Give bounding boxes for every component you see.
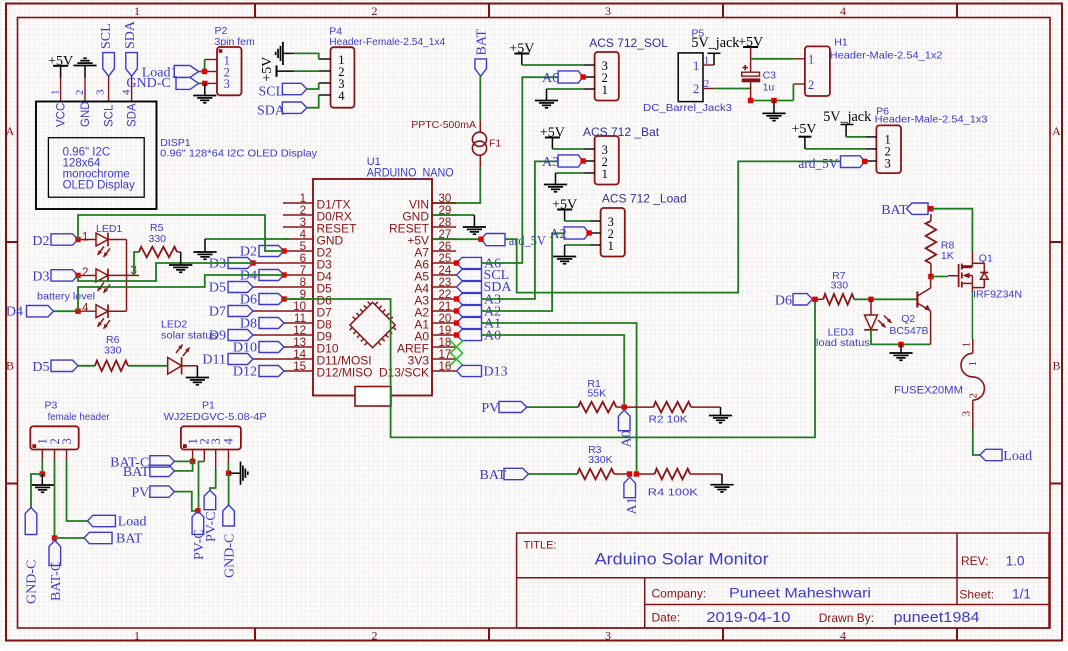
svg-text:Sheet:: Sheet: <box>959 588 994 602</box>
wire net D4 to U1 <box>78 275 284 311</box>
junction A1 b <box>634 471 639 476</box>
svg-text:A: A <box>1052 124 1061 138</box>
net flag PV-C (P1 pin2) <box>192 511 204 535</box>
connector P4 body <box>331 47 355 107</box>
svg-text:3: 3 <box>605 629 611 643</box>
ACS 712_SOL pin 1 <box>584 88 595 90</box>
wire P1.3 down <box>210 470 216 490</box>
svg-text:2: 2 <box>808 78 814 92</box>
svg-text:D2: D2 <box>32 234 49 249</box>
junction A1 a <box>627 471 632 476</box>
ground (U1 pin 29 GND) <box>433 214 475 216</box>
wire gnd to P4.1 <box>294 53 319 59</box>
svg-text:1: 1 <box>602 167 608 181</box>
svg-text:H1: H1 <box>834 37 848 49</box>
svg-text:PV: PV <box>131 485 149 500</box>
svg-text:3: 3 <box>961 411 973 417</box>
svg-text:20: 20 <box>439 313 452 325</box>
svg-text:3: 3 <box>605 4 611 18</box>
DISP1 pin 2 GND <box>84 78 86 101</box>
wire PV to junction <box>174 492 198 511</box>
P2 pin 2 <box>205 71 217 73</box>
ACS 712 _Bat pin 2 <box>584 160 595 162</box>
ACS 712 _Bat pin 3 <box>584 148 595 150</box>
junction ard_5V P6 <box>862 159 867 164</box>
svg-text:5V_jack: 5V_jack <box>691 35 740 51</box>
P6 pin 1 <box>865 136 876 138</box>
junction P2 pin2 <box>202 69 207 74</box>
wire H1.2 to gnd net <box>792 84 794 101</box>
svg-text:21: 21 <box>439 301 452 313</box>
svg-text:Date:: Date: <box>652 611 681 625</box>
svg-text:ACS 712 _Load: ACS 712 _Load <box>602 192 687 206</box>
junction Q2 base <box>868 297 873 302</box>
svg-text:8: 8 <box>300 277 306 289</box>
svg-text:PV-C: PV-C <box>204 511 219 542</box>
svg-text:14: 14 <box>293 349 306 361</box>
svg-text:1: 1 <box>808 53 814 67</box>
svg-text:1: 1 <box>961 342 973 348</box>
U1 pin 10 D7 <box>253 310 313 312</box>
svg-text:SDA: SDA <box>484 280 513 295</box>
svg-text:battery level: battery level <box>37 291 95 303</box>
svg-text:4: 4 <box>222 438 236 445</box>
P5 pin 2 <box>703 88 714 90</box>
U1 pin 17 3V3 <box>432 358 456 360</box>
U1 pin 18 AREF <box>432 346 456 348</box>
svg-text:1: 1 <box>134 629 140 643</box>
svg-text:BAT: BAT <box>123 465 150 480</box>
svg-text:Q2: Q2 <box>901 313 915 325</box>
svg-text:SCL: SCL <box>104 104 116 127</box>
wire P1.2 down to junction <box>199 462 205 511</box>
P1 pin 3 <box>215 450 217 471</box>
svg-text:13: 13 <box>293 337 306 349</box>
wire P3.1 down <box>41 459 43 474</box>
svg-text:330: 330 <box>149 233 167 245</box>
svg-text:17: 17 <box>439 349 452 361</box>
ground (P1 pin4) <box>229 472 241 474</box>
net flag GND-C (P1) <box>223 505 235 526</box>
wire SDA to P4.4 <box>307 95 319 108</box>
svg-text:BAT: BAT <box>116 532 143 547</box>
ground (U1 pin 4 GND) <box>205 238 289 240</box>
wire net A0 <box>482 335 625 404</box>
svg-text:1: 1 <box>602 83 608 97</box>
net flag A1 (divider) <box>624 477 636 498</box>
net flag D12 (U1 pin 15) <box>259 366 284 377</box>
DISP1 pin 3 SCL <box>108 76 110 101</box>
U1 pin 23 A4 <box>432 286 456 288</box>
power +5V (DISP1 VCC) <box>53 65 68 67</box>
svg-text:IRF9Z34N: IRF9Z34N <box>973 288 1022 300</box>
P3 pin 2 <box>54 450 56 461</box>
svg-text:26: 26 <box>439 241 452 253</box>
svg-text:30: 30 <box>439 193 452 205</box>
svg-text:Company:: Company: <box>652 587 707 601</box>
svg-text:4: 4 <box>840 629 846 643</box>
P2 pin 1 <box>205 59 217 61</box>
svg-text:330: 330 <box>831 280 849 292</box>
ACS 712 _Load pin 2 <box>590 232 601 234</box>
no-connect X pin 18 <box>450 341 463 354</box>
junction C3 <box>748 98 753 103</box>
wire P3.2 down <box>54 459 56 538</box>
junction PV <box>195 508 200 513</box>
svg-text:3: 3 <box>300 217 306 229</box>
svg-text:D5: D5 <box>209 281 226 296</box>
svg-text:5: 5 <box>300 241 306 253</box>
net flag ard_5V (U1 pin 27) <box>481 234 505 246</box>
power +5V (ACS 712_SOL) <box>514 53 529 55</box>
junction D2 pin5 <box>281 248 286 253</box>
svg-text:DC_Barrel_Jack3: DC_Barrel_Jack3 <box>643 102 732 114</box>
net flag D8 (U1 pin 11) <box>259 318 284 329</box>
svg-text:SCL: SCL <box>259 85 285 100</box>
svg-text:A6: A6 <box>542 71 559 86</box>
svg-text:OLED Display: OLED Display <box>63 180 135 192</box>
svg-text:23: 23 <box>439 277 452 289</box>
svg-text:BC547B: BC547B <box>889 325 928 337</box>
net flag D3 (U1 pin 6) <box>228 258 253 269</box>
wire net D6 U1 to R7 region <box>284 299 815 437</box>
net flag D2 (U1 pin 5) <box>259 246 284 257</box>
svg-text:22: 22 <box>439 289 452 301</box>
svg-text:C3: C3 <box>763 69 777 81</box>
wire +5V to H1.1 <box>751 58 794 60</box>
svg-text:F1: F1 <box>489 138 501 150</box>
svg-text:GND-C: GND-C <box>223 534 238 578</box>
svg-text:5V_jack: 5V_jack <box>823 109 872 125</box>
svg-text:4: 4 <box>840 4 846 18</box>
wire BAT to R3 <box>528 473 577 475</box>
svg-text:SDA: SDA <box>123 20 138 49</box>
ground (Q2/LED3) <box>900 344 902 353</box>
U1 usb connector icon <box>355 387 391 407</box>
svg-text:3: 3 <box>60 438 74 444</box>
svg-text:3: 3 <box>224 77 230 91</box>
svg-text:D4: D4 <box>6 305 23 320</box>
U1 pin 8 D5 <box>253 286 313 288</box>
ground (ACS 712_SOL) <box>547 88 584 90</box>
svg-text:GND-C: GND-C <box>126 76 170 91</box>
wire U1 pin27 to ard_5V flag <box>433 238 482 240</box>
wire +5V to P6.2 <box>805 148 865 150</box>
junction LED1 pin1 <box>75 237 80 242</box>
fuse F1 PPTC-500mA <box>472 132 486 146</box>
svg-text:1: 1 <box>704 55 710 67</box>
junction P1.4 <box>226 471 231 476</box>
svg-text:R2 10K: R2 10K <box>649 413 688 425</box>
svg-text:WJ2EDGVC-5.08-4P: WJ2EDGVC-5.08-4P <box>164 411 267 423</box>
svg-text:2: 2 <box>74 90 86 96</box>
wire net A3 <box>482 161 559 299</box>
U1 pin 11 D8 <box>283 322 313 324</box>
title block <box>517 533 1049 628</box>
wire +5V to ACS 712 _Bat.3 <box>552 148 583 150</box>
svg-text:Load: Load <box>118 515 147 530</box>
wire net A1 <box>482 323 637 471</box>
junction P3.1 <box>40 471 45 476</box>
svg-text:D12: D12 <box>233 365 257 380</box>
ground (P2 pin3) <box>204 83 206 95</box>
svg-text:18: 18 <box>439 337 452 349</box>
net flag D13 (U1 pin 16) <box>457 365 482 376</box>
net flag A6 (U1 pin 25) <box>457 257 482 268</box>
svg-text:4: 4 <box>338 89 345 103</box>
junction LED1 pin2 <box>75 273 80 278</box>
wire BAT to Q1 <box>931 209 973 253</box>
P5 pin 1 <box>703 64 714 66</box>
junction A0 <box>622 404 627 409</box>
svg-text:12: 12 <box>293 325 306 337</box>
svg-text:1: 1 <box>693 59 699 73</box>
svg-text:Drawn By:: Drawn By: <box>819 611 874 625</box>
wire P1.4 to GND-C flag <box>228 473 230 505</box>
wire 5V_jack to P6.1 <box>846 136 865 138</box>
ACS 712_SOL pin 2 <box>584 76 595 78</box>
svg-text:2019-04-10: 2019-04-10 <box>706 609 790 626</box>
net flag A3 (U1 pin 22) <box>457 293 482 304</box>
svg-text:B: B <box>1052 359 1060 373</box>
svg-text:3: 3 <box>95 89 107 95</box>
wire Q1 gate <box>931 276 948 278</box>
svg-text:3pin fem: 3pin fem <box>215 36 256 48</box>
U1 pin 25 A6 <box>432 262 456 264</box>
svg-text:GND-C: GND-C <box>25 560 40 604</box>
connector ACS 712_SOL body <box>595 52 619 101</box>
power +5V (ACS 712 _Bat) <box>545 137 560 139</box>
wire R6 to LED2 <box>128 365 168 367</box>
junction A6 <box>580 74 585 79</box>
U1 pin 29 GND <box>432 214 456 216</box>
svg-text:D13/SCK: D13/SCK <box>379 365 429 379</box>
U1 pin 15 D12/MISO <box>283 370 313 372</box>
P1 pin 4 <box>227 450 229 463</box>
DISP1 pin 4 SDA <box>131 76 133 101</box>
net flag SCL (U1 pin 24) <box>457 269 482 280</box>
wire +5V to ACS 712_SOL.3 <box>522 64 584 66</box>
svg-text:REV:: REV: <box>961 554 989 568</box>
wire R7 to Q2 base <box>854 298 917 300</box>
LED1 led 3 <box>78 310 96 312</box>
no-connect X pin 17 <box>450 353 463 366</box>
svg-text:1: 1 <box>50 90 62 96</box>
net flag D11 (U1 pin 14) <box>228 354 253 365</box>
connector ACS 712 _Bat body <box>595 136 619 185</box>
P6 pin 2 <box>865 148 876 150</box>
svg-text:Load: Load <box>1003 449 1032 464</box>
svg-text:11: 11 <box>294 313 306 325</box>
net flag D5 (U1 pin 8) <box>228 282 253 293</box>
junction P1.1 <box>190 459 195 464</box>
svg-text:24: 24 <box>439 265 452 277</box>
svg-text:ACS 712_SOL: ACS 712_SOL <box>589 36 668 50</box>
P6 pin 3 <box>865 160 876 162</box>
svg-text:3: 3 <box>885 157 891 171</box>
wire SCL to P4.3 <box>307 83 319 89</box>
svg-text:1/1: 1/1 <box>1012 587 1031 602</box>
svg-text:330: 330 <box>104 345 122 357</box>
U1 pin 22 A3 <box>432 298 456 300</box>
net flag SDA (U1 pin 23) <box>457 281 482 292</box>
svg-text:1: 1 <box>82 232 88 244</box>
svg-text:6: 6 <box>300 253 306 265</box>
wire P1.4 down <box>227 461 229 473</box>
net flag BAT-C (P3) <box>49 541 61 566</box>
svg-text:4: 4 <box>82 303 89 315</box>
svg-text:B: B <box>6 359 14 373</box>
ground (R5) <box>177 251 181 253</box>
net flag A0 (U1 pin 19) <box>457 329 482 340</box>
svg-text:Arduino Solar Monitor: Arduino Solar Monitor <box>595 551 770 569</box>
wire P1.1 down <box>192 458 194 461</box>
svg-text:puneet1984: puneet1984 <box>894 609 980 626</box>
ground (ACS 712 _Bat) <box>556 172 584 174</box>
svg-text:2: 2 <box>704 78 710 90</box>
ground (R2) <box>720 407 722 415</box>
wire +5V to ACS 712 _Load.3 <box>565 220 590 222</box>
wire BAT to F1 <box>479 76 481 120</box>
connector P6 body <box>876 125 901 173</box>
svg-text:A1: A1 <box>625 497 640 514</box>
capacitor C3 1u <box>750 47 752 72</box>
wire P3.1 to GND-C flag <box>31 474 42 508</box>
ACS 712 _Load pin 1 <box>590 244 601 246</box>
P3 pin 1 <box>41 450 43 461</box>
junction D3 pin6 <box>250 260 255 265</box>
junction BAT <box>928 206 933 211</box>
U1 pin 16 D13/SCK <box>432 370 456 372</box>
svg-text:solar status: solar status <box>161 330 217 342</box>
svg-text:LED1: LED1 <box>96 223 122 235</box>
svg-text:Header-Male-2.54_1x3: Header-Male-2.54_1x3 <box>875 113 988 125</box>
svg-text:2: 2 <box>372 629 378 643</box>
ic U1 ARDUINO_NANO body <box>313 179 432 396</box>
wire PV to R1 <box>527 406 578 408</box>
svg-text:2: 2 <box>968 393 980 399</box>
svg-text:U1: U1 <box>367 156 381 168</box>
P1 pin 2 <box>203 450 205 462</box>
svg-text:A: A <box>6 124 15 138</box>
svg-text:SDA: SDA <box>127 103 139 127</box>
connector P1 body <box>181 426 241 449</box>
net flag BAT (P3) <box>84 532 112 543</box>
svg-text:1K: 1K <box>941 250 954 262</box>
wire Q1 drain to fuse <box>971 292 973 339</box>
svg-text:16: 16 <box>439 361 452 373</box>
svg-text:D6: D6 <box>775 293 792 308</box>
net flag A0 (divider) <box>618 410 630 431</box>
svg-text:4: 4 <box>300 229 307 241</box>
junction A2 <box>586 230 591 235</box>
P3 pin 3 <box>66 450 68 461</box>
junction D6 <box>812 297 817 302</box>
junction P3.2 <box>52 535 57 540</box>
svg-text:10: 10 <box>293 301 306 313</box>
H1 pin 2 <box>793 83 805 85</box>
wire P3.3 down <box>67 459 88 521</box>
connector ACS 712 _Load body <box>601 208 625 257</box>
P4 pin 3 <box>319 82 331 84</box>
wire net A6 <box>482 77 559 263</box>
svg-text:+5V: +5V <box>791 122 816 137</box>
U1 pin 28 RESET <box>432 226 456 228</box>
junction D6 pin9 <box>281 296 286 301</box>
wire LED1.3 to R5 <box>134 252 139 275</box>
ACS 712 _Bat pin 1 <box>584 172 595 174</box>
svg-text:D13: D13 <box>484 365 508 380</box>
svg-text:2: 2 <box>82 267 88 279</box>
svg-text:1: 1 <box>967 361 979 367</box>
op display DISP1 body <box>36 102 157 210</box>
junction LED1 pin4 <box>75 309 80 314</box>
U1 pin 27 +5V <box>432 238 456 240</box>
U1 pin 3 RESET <box>283 226 313 228</box>
DISP1 pin 1 VCC <box>60 78 62 101</box>
connector P5 body <box>678 53 703 102</box>
U1 pin 26 A7 <box>432 250 456 252</box>
LED1 cathode rail <box>126 240 128 312</box>
ground (P4 pin1) <box>276 42 283 65</box>
wire net D3 to U1 <box>78 263 253 281</box>
connector P2 body <box>217 47 242 95</box>
U1 pin 21 A2 <box>432 310 456 312</box>
LED1 pin 3 exit <box>108 274 139 276</box>
U1 pin 20 A1 <box>432 322 456 324</box>
net flag D10 (U1 pin 13) <box>259 342 284 353</box>
svg-text:TITLE:: TITLE: <box>524 540 557 552</box>
junction P2 pin3 <box>202 81 207 86</box>
ACS 712 _Load pin 3 <box>590 220 601 222</box>
net flag A2 (U1 pin 21) <box>457 305 482 316</box>
svg-text:SCL: SCL <box>99 23 114 49</box>
wire BAT to P1.1 <box>174 461 192 471</box>
net flag PV-C (P1 pin3) <box>204 490 216 510</box>
U1 pin 5 D2 <box>283 250 313 252</box>
junction D4 pin7 <box>281 272 286 277</box>
U1 pin 24 A5 <box>432 274 456 276</box>
ACS 712_SOL pin 3 <box>584 64 595 66</box>
wire to BAT flag <box>55 537 85 539</box>
svg-text:7: 7 <box>300 265 306 277</box>
power +5V (ACS 712 _Load) <box>557 209 572 211</box>
svg-text:SDA: SDA <box>257 104 286 119</box>
svg-text:1.0: 1.0 <box>1006 554 1025 569</box>
U1 pin 2 D0/RX <box>283 214 313 216</box>
ground (ACS 712 _Load) <box>565 244 590 246</box>
ground (LED2) <box>182 365 198 367</box>
svg-text:A0: A0 <box>484 329 501 344</box>
svg-text:P1: P1 <box>202 399 215 411</box>
net flag Load (fuse) <box>980 449 1002 460</box>
U1 pin 1 D1/TX <box>283 202 313 204</box>
svg-text:ard_5V: ard_5V <box>509 234 546 249</box>
net flag GND-C (P3) <box>25 508 37 535</box>
P2 pin 3 <box>205 82 217 84</box>
ground (P3 pin1) <box>41 474 43 485</box>
wire net A2 <box>482 233 565 311</box>
U1 pin 9 D6 <box>283 298 313 300</box>
svg-text:25: 25 <box>439 253 452 265</box>
svg-text:GND: GND <box>80 101 92 127</box>
net flag D4 (U1 pin 7) <box>259 270 284 281</box>
ground (R4) <box>721 474 723 485</box>
svg-text:28: 28 <box>439 217 452 229</box>
LED1 led 2 <box>78 274 96 276</box>
svg-text:BAT: BAT <box>881 203 908 218</box>
H1 pin 1 <box>793 58 805 60</box>
